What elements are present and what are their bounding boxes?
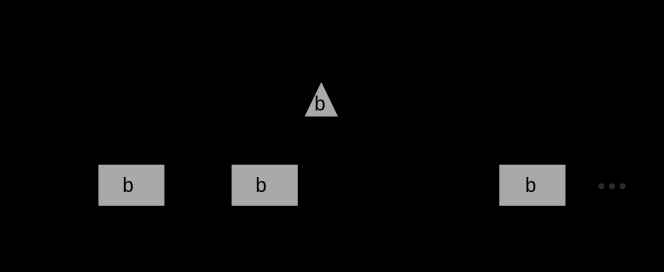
- ellipsis dot 2: [609, 183, 615, 189]
- svg-text:b: b: [525, 175, 536, 197]
- box node B2: [232, 165, 298, 206]
- svg-text:b: b: [256, 175, 267, 197]
- triangle node T1: [305, 82, 338, 117]
- svg-text:b: b: [314, 94, 325, 116]
- ellipsis dot 3: [620, 183, 626, 189]
- ellipsis dot 1: [598, 183, 604, 189]
- box node B3: [499, 165, 565, 206]
- svg-text:b: b: [122, 175, 133, 197]
- box node B1: [98, 165, 164, 206]
